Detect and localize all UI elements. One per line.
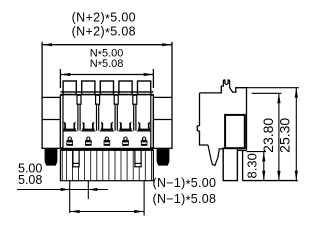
(N-1) arrow left [70,210,80,213]
boundary slot 2 [96,95,100,104]
dimension (N+2) extension line left [41,42,43,98]
body right wall [151,95,154,148]
dimension N extension line left [59,69,61,88]
svg-text:(N−1)*5.00: (N−1)*5.00 [153,176,217,192]
pcb reference line [243,180,298,182]
divider wall lines 1 [77,104,79,131]
right flange threaded black part [157,149,170,166]
right flange white body [153,97,172,148]
arrow right (N+2) [162,43,172,46]
arrow up 23.80 [277,93,280,103]
(N-1) dimension line [70,211,144,213]
pitch 5.08 leader + dimension line [17,189,108,191]
arrow left (N+2) [42,43,52,46]
wire release claw [208,145,223,166]
boundary slot 4 [133,95,137,104]
divider wall lines 2 [96,104,98,131]
left flange white body [42,97,60,148]
window 5 flares, feet and cell base [137,122,151,131]
inner cavity rectangle [225,115,245,148]
divider wall lines 4 [133,104,135,131]
svg-text:25.30: 25.30 [277,118,293,153]
dimension (N+2) extension line right [171,42,173,98]
svg-text:(N+2)*5.08: (N+2)*5.08 [72,25,136,41]
pitch arrow left-pointing at pin2 [88,188,97,191]
window cup 1 [65,123,74,130]
screw symbol 3 [104,137,111,146]
window 1 flares, feet and cell base [63,122,77,131]
pitch dim: pin2 extension line [87,181,89,199]
side view outline with latch tab [200,80,247,150]
boundary slot 1 [77,95,81,104]
dimension line (N+2) [42,44,172,46]
window 4 flares, feet and cell base [119,122,133,131]
tower pole 4 [119,81,132,95]
window cup 5 [140,123,149,130]
boundary slot 3 [114,95,118,104]
tower pole 5 [138,81,151,95]
dimension line 23.80 [278,93,280,180]
dimension N extension line right [152,69,154,88]
window cup 4 [121,123,130,130]
svg-text:8.30: 8.30 [244,153,259,178]
extension line top 25.30 [247,87,299,89]
arrow up 8.30 [262,152,265,162]
bar upper line [60,91,153,93]
left flange threaded black part [45,149,58,166]
arrow down 25.30 [295,171,298,181]
window 3 flares, feet and cell base [100,122,114,131]
screw clamp symbols [66,137,147,146]
side view dimensions [247,88,299,181]
lower body [60,150,153,180]
socket windows row [65,123,149,130]
window cup 2 [84,123,93,130]
solder pin shaft [223,148,237,180]
lower bar thick band [60,148,153,151]
arrow up 25.30 [295,88,298,98]
svg-text:(N−1)*5.08: (N−1)*5.08 [153,192,217,208]
dimension line 25.30 [295,88,297,181]
probe box 1 [73,150,79,167]
window cup 3 [102,123,111,130]
screw symbol 5 [141,137,148,146]
tower pole 1 [63,81,76,95]
extension tick 8.30 [247,151,267,153]
bar lower line [60,94,153,96]
svg-text:23.80: 23.80 [260,118,276,153]
svg-text:N*5.08: N*5.08 [90,58,124,72]
lower body vertical lines [66,150,145,180]
pitch dim: pin1 extension line [69,181,71,213]
tower pole 3 [100,81,113,95]
lower body inner wall left [61,150,63,180]
arrow right N [144,73,154,76]
svg-text:5.08: 5.08 [18,173,42,187]
right foot line [242,150,244,180]
lower body inner wall right [151,150,153,180]
extension line top 23.80 [252,92,282,94]
arrow left N [60,73,70,76]
side view left edge with bump [197,93,208,145]
dimension line 8.30 [263,152,265,181]
probe box 2 [135,150,141,167]
screw symbol 4 [122,137,129,146]
front view top towers and bar [60,81,153,95]
tower pole 2 [82,81,95,95]
svg-text:(N+2)*5.00: (N+2)*5.00 [72,10,136,26]
left flange divider line [42,119,60,121]
body bottom edge right [237,149,246,151]
divider wall lines 3 [114,104,116,131]
arrow down 8.30 [262,171,265,181]
arrow down 23.80 [277,171,280,181]
screw symbol 1 [66,137,73,146]
pitch arrow right-pointing at pin1 [61,188,70,191]
dimension line N [60,74,153,76]
right flange divider line [153,119,172,121]
(N-1) arrow right [134,210,144,213]
body left wall [60,95,63,148]
window 2 flares, feet and cell base [81,122,95,131]
screw symbol 2 [85,137,92,146]
pin5 extension line [143,181,145,216]
